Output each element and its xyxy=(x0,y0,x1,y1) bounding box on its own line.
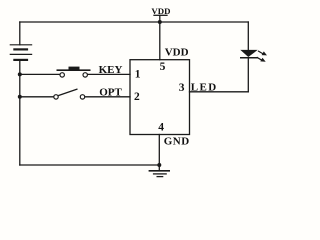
wire top VDD rail xyxy=(20,21,249,23)
power symbol VDD bar xyxy=(154,14,167,16)
ground symbol bar 3 xyxy=(157,176,164,178)
wire battery positive lead xyxy=(19,22,21,45)
LED D1 triangle xyxy=(240,50,257,57)
svg-text:5: 5 xyxy=(160,61,166,73)
LED D1 emission arrow 1 xyxy=(258,51,267,56)
battery BT1 plate long 2 xyxy=(10,53,31,55)
junction dot OPT branch xyxy=(18,95,22,99)
wire LED anode lead xyxy=(247,22,249,50)
svg-text:LED: LED xyxy=(191,82,218,94)
pushbutton S1 KEY right terminal xyxy=(83,73,87,77)
IC U1 body xyxy=(130,60,190,135)
junction dot VDD rail xyxy=(158,20,162,24)
svg-text:1: 1 xyxy=(135,68,141,80)
wire OPT branch left xyxy=(20,96,54,98)
power symbol VDD stem xyxy=(159,15,161,22)
switch S2 OPT left terminal xyxy=(54,95,58,99)
LED D1 cathode bar xyxy=(240,57,258,59)
LED D1 emission arrow 2 xyxy=(257,57,266,62)
battery BT1 plate short 2 xyxy=(14,59,27,61)
pushbutton S1 KEY left terminal xyxy=(60,73,64,77)
junction dot ground node xyxy=(157,163,161,167)
junction dot KEY branch xyxy=(18,72,22,76)
switch S2 OPT right terminal xyxy=(80,95,84,99)
svg-text:3: 3 xyxy=(179,82,185,94)
svg-text:VDD: VDD xyxy=(165,46,189,58)
pushbutton S1 KEY actuator xyxy=(69,67,80,70)
svg-text:OPT: OPT xyxy=(99,87,122,99)
svg-text:4: 4 xyxy=(158,121,164,133)
ground symbol bar 1 xyxy=(149,170,170,172)
switch S2 OPT lever xyxy=(58,89,77,96)
svg-text:2: 2 xyxy=(134,91,140,103)
ground symbol bar 2 xyxy=(153,173,167,175)
wire pin 3 LED net xyxy=(190,91,249,93)
wire KEY branch right to pin 1 xyxy=(88,73,131,75)
pushbutton S1 KEY bar xyxy=(57,69,91,71)
battery BT1 plate long 1 xyxy=(10,44,31,46)
svg-text:VDD: VDD xyxy=(151,6,170,16)
wire bottom return xyxy=(20,164,160,166)
svg-text:KEY: KEY xyxy=(99,64,123,76)
wire pin 4 GND lead xyxy=(158,135,160,171)
wire LED cathode lead xyxy=(247,58,249,92)
battery BT1 plate short 1 xyxy=(14,48,27,50)
wire pin 5 to VDD rail xyxy=(159,22,161,60)
wire OPT branch right to pin 2 xyxy=(85,96,130,98)
wire left rail xyxy=(19,60,21,165)
svg-text:GND: GND xyxy=(164,136,190,148)
wire KEY branch left xyxy=(20,73,60,75)
